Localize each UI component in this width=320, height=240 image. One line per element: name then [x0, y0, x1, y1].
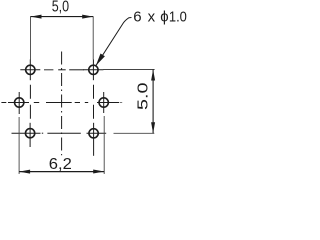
dimension 5,0 top: dimension line: [31, 16, 94, 18]
leader arrow: [96, 54, 105, 66]
dimension 5,0 top: extension line left: [30, 16, 32, 59]
hole top-right: [83, 59, 103, 80]
dimension 5.0 right: arrow down: [151, 122, 155, 133]
dimension 5.0 right: extension line bottom: [114, 132, 155, 134]
centerline horizontal bottom row: [42, 132, 81, 134]
hole bottom-right: [87, 123, 107, 156]
dimension 5,0 top: extension line right: [92, 16, 94, 59]
centerline vertical left column: [29, 85, 31, 123]
dimension 5.0 right: extension line top: [103, 69, 155, 71]
centerline vertical middle: [61, 52, 63, 156]
leader line for hole callout: [96, 18, 132, 66]
dimension 5.0 right: dimension line: [152, 70, 154, 134]
svg-text:6xϕ1.0: 6xϕ1.0: [133, 9, 187, 26]
dimension 6,2 bottom: extension line right: [103, 116, 105, 174]
svg-text:5,0: 5,0: [52, 0, 69, 16]
hole middle-right: [97, 92, 122, 113]
dimension 6,2 bottom: arrow left: [19, 170, 30, 174]
svg-text:6,2: 6,2: [49, 156, 72, 173]
svg-text:5.0: 5.0: [134, 83, 151, 111]
hole top-left: [20, 59, 40, 80]
dimension 6,2 bottom: dimension line: [19, 171, 104, 173]
centerline horizontal top row: [44, 69, 84, 71]
hole middle-left: [1, 92, 29, 114]
dimension 6,2 bottom: arrow right: [93, 170, 104, 174]
dimension 5,0 top: arrow right: [82, 15, 93, 19]
dimension 5.0 right: arrow up: [151, 70, 155, 81]
centerline vertical right column: [93, 85, 95, 123]
centerline horizontal middle row: [34, 102, 88, 104]
dimension 5,0 top: arrow left: [31, 15, 42, 19]
hole bottom-left: [12, 123, 41, 147]
dimension 6,2 bottom: extension line left: [18, 117, 20, 174]
